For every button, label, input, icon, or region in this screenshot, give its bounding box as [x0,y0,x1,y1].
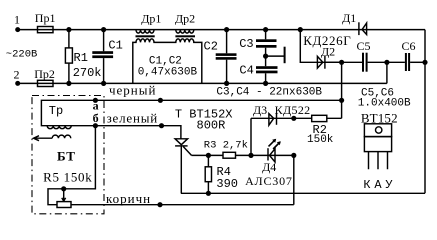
wire: C6 to right edge [410,61,425,63]
wire: bottom rail riser to C5/C6 midpoint [386,62,388,83]
wire: gate network horizontal [192,154,294,156]
svg-text:1.0х400В: 1.0х400В [358,98,411,110]
wire: Д3/R2 horizontal [251,117,342,119]
node а (Тр top-right terminal) [93,98,98,103]
node: D2 branch junction on top rail [298,27,303,32]
svg-text:R3 2,7k: R3 2,7k [204,139,248,151]
node: C2 top junction [224,27,229,32]
transistor ВТ152 body [364,137,391,152]
wire: коричн (brown) lead [71,204,294,206]
node: C5/C6 midpoint junction [384,60,389,65]
node: R4 bottom junction on bus [206,191,211,196]
svg-text:C2: C2 [204,40,218,54]
svg-text:К: К [363,178,370,192]
svg-text:~220В: ~220В [6,49,38,61]
diode Д2 (КД226Г) [317,56,342,69]
node 2 (terminal dot) [15,81,20,86]
diode Д3 (КД522) [269,113,277,125]
capacitor C4 [256,66,278,83]
wire: branch from top rail to D2 anode [300,30,317,63]
resistor R1 [65,30,72,84]
capacitor C1 [92,30,113,84]
node: R1 top junction [66,27,71,32]
svg-text:коричн: коричн [106,191,151,206]
wire: C3/C4 midpoint stub [266,55,284,57]
inductor Др1 core bar [136,35,155,37]
fuse Пр1 [38,27,54,33]
resistor R4 [205,155,211,193]
transformer Тр bottom-edge winding [47,126,71,129]
node: Д3 cathode / R2 left junction [291,116,296,121]
svg-text:БТ: БТ [57,148,76,163]
wire: output bus (thyristor cathode to right edge) [181,192,425,194]
svg-text:Д3: Д3 [253,103,267,117]
node: C3/C4 midpoint [263,54,268,59]
wire: vertical from D2/C5 junction down to R2 (crosses bottom rail) [341,62,343,118]
LED Д4 (АЛС307) [268,139,281,162]
node: черный/R2 branch junction [339,98,344,103]
svg-text:R1: R1 [74,51,88,65]
svg-text:C3: C3 [239,37,253,51]
svg-text:270k: 270k [73,66,102,80]
svg-text:зеленый: зеленый [107,110,158,125]
svg-text:ВТ152: ВТ152 [361,110,398,125]
wire: D2 cathode to C5 [325,61,362,63]
svg-text:Пр1: Пр1 [35,11,56,25]
node: D2/C5 junction [339,60,344,65]
node: junction dot on зеленый wire [159,123,164,128]
node: C6 output junction on right edge [422,60,427,65]
thyristor T ВТ152Х [175,139,191,194]
node: C1 bottom junction [101,81,106,86]
svg-text:У: У [385,178,393,192]
svg-text:С6: С6 [402,39,416,53]
node: R3 right / Д3 branch junction [248,153,253,158]
secondary winding with arrow (inside БТ) [34,135,71,141]
capacitor C2 [216,30,237,84]
node: junction dot on коричн wire [157,202,162,207]
svg-text:150k: 150k [307,134,334,146]
node 1 (terminal dot) [15,27,20,32]
wire: top rail (L line) [18,29,425,31]
svg-text:Тр: Тр [49,104,63,118]
transistor ВТ152 mounting hole [376,127,382,133]
svg-text:С3,С4 - 22пх630В: С3,С4 - 22пх630В [216,87,322,99]
resistor R2 [312,115,327,121]
svg-text:Д2: Д2 [321,44,335,58]
node: C2 bottom junction [224,81,229,86]
wire: lower winding loop of Др1/Др2 (box around C1,C2 label) [133,39,202,84]
wire: Д4 right vertical down through bus to коричн [293,155,295,204]
transformer Тр box [41,100,95,125]
svg-text:АЛС307: АЛС307 [245,174,293,188]
capacitor C5 [362,53,368,72]
transistor ВТ152 legs [369,152,388,170]
wire: right edge vertical (D1 cathode to output bus) [424,30,426,194]
wire: зеленый (green) lead from б to thyristor anode [95,126,180,139]
node б (Тр bottom-right terminal) [93,123,98,128]
wire: черный (black) lead from а [95,99,341,101]
node: R3 left / R4 top junction [206,153,211,158]
svg-text:2: 2 [14,67,20,81]
potentiometer R5 [57,202,71,208]
svg-text:Д4: Д4 [262,160,276,174]
capacitor C6 [405,53,410,71]
svg-text:Др1: Др1 [141,11,161,25]
svg-text:390: 390 [216,177,238,191]
terminal bar on midpoint stub [284,47,286,64]
node: C4 bottom junction [263,81,268,86]
resistor R3 [223,152,236,158]
svg-text:Др2: Др2 [175,11,195,25]
node: R1 bottom junction [66,81,71,86]
svg-text:C1: C1 [108,38,122,52]
diode Д1 [359,22,367,35]
wire: Д3 branch up from R3 right [250,118,252,155]
node: C3 top junction [263,27,268,32]
svg-text:б: б [93,111,99,125]
svg-text:C1,C2: C1,C2 [149,55,182,67]
svg-text:800R: 800R [197,118,226,132]
svg-text:Д1: Д1 [342,11,356,25]
svg-text:R5 150k: R5 150k [43,170,92,185]
node: Д4 right junction [291,153,296,158]
svg-text:А: А [374,178,382,192]
wire: б lead down and over to R5 [48,126,95,205]
wire: C5 to C6 [368,61,405,63]
capacitor C3 [256,30,277,67]
fuse Пр2 [38,80,54,86]
svg-text:С5: С5 [357,39,371,53]
node: C1 top junction [101,27,106,32]
node: R5 wiper junction [61,186,66,191]
dashed enclosure БТ [32,96,104,214]
svg-text:Пр2: Пр2 [34,67,55,81]
transistor ВТ152 package (TO-220 tab) [364,124,391,137]
potentiometer R5 wiper [63,189,65,201]
inductor Др1 (top winding bumps) [136,30,154,34]
wire: bottom rail (N line) [18,82,387,84]
svg-text:КД522: КД522 [275,103,311,117]
svg-text:черный: черный [109,83,156,98]
svg-text:1: 1 [14,13,20,27]
svg-text:0,47х630В: 0,47х630В [138,67,198,79]
inductor Др2 (top winding bumps) [176,30,194,34]
inductor Др2 core bar [175,35,195,37]
svg-text:C4: C4 [239,63,253,77]
node: junction dot on черный wire [158,98,163,103]
